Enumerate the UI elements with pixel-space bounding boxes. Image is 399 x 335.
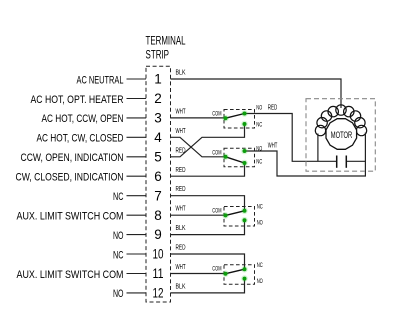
switch S2 (CW limit) dashed enclosure (224, 148, 255, 167)
motor winding left lead (317, 134, 319, 162)
switch S4 (aux limit switch 2) dashed enclosure (224, 265, 255, 285)
svg-text:RED: RED (176, 165, 186, 174)
svg-text:4: 4 (154, 130, 162, 145)
contact point S3 NC (241, 208, 248, 215)
svg-text:BLK: BLK (176, 281, 186, 290)
wire RED: switch S1 NO to motor capacitor left (245, 114, 337, 162)
motor M1 body (12-gon) (326, 119, 357, 150)
svg-text:WHT: WHT (176, 262, 186, 271)
svg-text:12: 12 (153, 286, 164, 301)
svg-text:AC HOT, CCW, OPEN: AC HOT, CCW, OPEN (42, 113, 124, 125)
svg-text:COM: COM (212, 149, 221, 156)
leader wire terminal 3 (127, 117, 147, 119)
wire RED: terminal 10 to switch S4 NC (171, 254, 245, 269)
svg-text:9: 9 (154, 227, 162, 242)
wire WHT: terminal 11 to switch S4 COM (171, 273, 226, 275)
contact point S2 COM (222, 154, 229, 161)
svg-text:NC: NC (113, 191, 124, 203)
svg-text:11: 11 (153, 266, 164, 281)
svg-text:3: 3 (154, 111, 162, 126)
svg-text:NC: NC (256, 159, 262, 166)
svg-text:COM: COM (212, 110, 221, 117)
wire RED: terminal 7 to switch S3 NC (171, 196, 245, 211)
svg-text:STRIP: STRIP (146, 47, 170, 61)
wire RED: terminal 6 to switch S2 NC (171, 163, 245, 176)
motor M1 winding coils (315, 105, 366, 136)
svg-text:NO: NO (257, 220, 263, 227)
terminal strip TB1 dashed outline (146, 66, 171, 302)
svg-text:AC HOT, CW, CLOSED: AC HOT, CW, CLOSED (37, 133, 124, 145)
svg-text:CCW, OPEN, INDICATION: CCW, OPEN, INDICATION (21, 152, 124, 164)
svg-text:AUX. LIMIT SWITCH COM: AUX. LIMIT SWITCH COM (17, 211, 124, 223)
leader wire terminal 11 (127, 273, 147, 275)
contact point S1 NC (241, 121, 248, 128)
wire WHT: switch S2 NO to motor capacitor right (245, 151, 366, 176)
svg-text:5: 5 (154, 149, 162, 164)
svg-text:AC HOT, OPT. HEATER: AC HOT, OPT. HEATER (31, 94, 124, 106)
svg-text:AUX. LIMIT SWITCH COM: AUX. LIMIT SWITCH COM (17, 269, 124, 281)
svg-text:NO: NO (256, 104, 262, 111)
contact point S1 NO (241, 110, 248, 117)
switch S3 lever COM->NC (226, 211, 245, 216)
contact point S2 NO (241, 148, 248, 155)
svg-text:TERMINAL: TERMINAL (146, 33, 186, 47)
wire BLK: terminal 9 to switch S3 NO (171, 220, 245, 234)
svg-text:BLK: BLK (176, 223, 186, 232)
leader wire terminal 4 (127, 136, 147, 138)
svg-text:NC: NC (113, 249, 124, 261)
svg-text:NO: NO (256, 145, 262, 152)
svg-text:COM: COM (212, 266, 221, 273)
switch S1 (CCW limit) dashed enclosure (224, 110, 255, 129)
svg-text:COM: COM (212, 207, 221, 214)
wire BLK: terminal 1 to motor winding top (171, 79, 342, 108)
svg-text:1: 1 (154, 72, 162, 87)
contact point S3 COM (222, 212, 229, 219)
wire WHT: terminal 3 to switch S1 COM (171, 117, 226, 119)
leader wire terminal 9 (127, 234, 147, 236)
svg-text:RED: RED (176, 184, 186, 193)
motor winding right lead (364, 133, 366, 162)
svg-text:BLK: BLK (176, 68, 186, 77)
svg-text:CW, CLOSED, INDICATION: CW, CLOSED, INDICATION (16, 172, 124, 184)
switch S4 lever COM->NC (226, 269, 245, 274)
svg-text:RED: RED (268, 104, 278, 111)
wire WHT: terminal 8 to switch S3 COM (171, 214, 226, 216)
svg-text:MOTOR: MOTOR (331, 130, 353, 141)
svg-text:2: 2 (154, 91, 162, 106)
contact point S3 NO (241, 217, 248, 224)
switch S2 lever COM->NC (226, 157, 245, 163)
leader wire terminal 7 (127, 195, 147, 197)
title TERMINAL STRIP (146, 33, 186, 61)
leader wire terminal 6 (127, 175, 147, 177)
switch S1 lever COM->NO (226, 114, 245, 119)
svg-text:RED: RED (176, 243, 186, 252)
svg-text:WHT: WHT (176, 106, 186, 115)
svg-text:10: 10 (153, 247, 164, 262)
leader wire terminal 8 (127, 214, 147, 216)
svg-text:NC: NC (256, 121, 262, 128)
contact point S4 NC (241, 266, 248, 273)
svg-text:NO: NO (113, 288, 124, 300)
wire WHT: terminal 4 to switch S2 COM (crossover) (171, 137, 226, 157)
switch S3 (aux limit switch 1) dashed enclosure (224, 207, 255, 227)
wire BLK: terminal 12 to switch S4 NO (171, 279, 245, 293)
leader wire terminal 5 (127, 156, 147, 158)
capacitor C1 right plate (345, 156, 347, 168)
svg-text:WHT: WHT (176, 204, 186, 213)
svg-text:6: 6 (154, 169, 162, 184)
contact point S2 NC (241, 160, 248, 167)
svg-text:WHT: WHT (268, 142, 278, 149)
leader wire terminal 12 (127, 292, 147, 294)
svg-text:WHT: WHT (176, 126, 186, 135)
svg-text:NO: NO (113, 230, 124, 242)
leader wire terminal 1 (127, 78, 147, 80)
contact point S4 COM (222, 270, 229, 277)
contact point S4 NO (241, 275, 248, 282)
svg-text:NC: NC (257, 204, 263, 211)
wire RED: terminal 5 to switch S1 NC (crossover) (171, 124, 245, 157)
contact point S1 COM (222, 115, 229, 122)
svg-text:AC NEUTRAL: AC NEUTRAL (77, 74, 124, 86)
leader wire terminal 2 (127, 98, 147, 100)
capacitor C1 left plate (336, 156, 338, 168)
leader wire terminal 10 (127, 253, 147, 255)
motor M1 dashed enclosure (306, 99, 375, 172)
svg-text:7: 7 (154, 188, 162, 203)
svg-text:NC: NC (257, 262, 263, 269)
svg-text:NO: NO (257, 278, 263, 285)
svg-text:8: 8 (154, 208, 162, 223)
